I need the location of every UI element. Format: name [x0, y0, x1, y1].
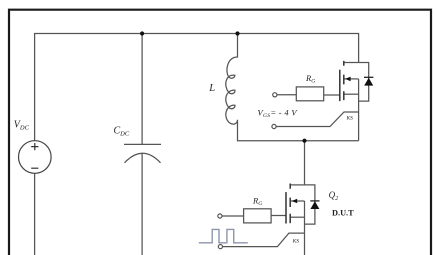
svg-text:KS: KS	[346, 116, 354, 122]
svg-text:D.U.T: D.U.T	[332, 208, 354, 217]
svg-text:L: L	[208, 83, 215, 94]
svg-text:KS: KS	[292, 238, 300, 244]
